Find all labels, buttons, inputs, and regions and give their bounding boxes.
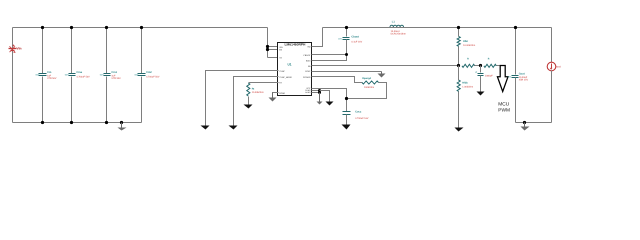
svg-text:100kOhm: 100kOhm — [364, 86, 374, 89]
svg-text:Iout: Iout — [556, 65, 561, 69]
capacitor Cin1 — [100, 28, 121, 123]
node FB divider junction — [457, 64, 460, 67]
svg-text:Cvcc: Cvcc — [355, 111, 362, 114]
svg-text:Cina: Cina — [76, 71, 82, 74]
svg-text:Vin: Vin — [17, 47, 22, 51]
resistor Rt — [247, 83, 279, 105]
wire input left vertical — [12, 28, 14, 123]
capacitor Cboot — [312, 28, 363, 61]
node junction dots on input rails — [41, 26, 44, 29]
svg-text:1uF: 1uF — [47, 74, 52, 77]
svg-text:Rt: Rt — [252, 88, 255, 91]
svg-text:25V: 25V — [507, 75, 511, 78]
inductor L1 — [390, 21, 406, 36]
svg-text:PGND: PGND — [279, 92, 285, 95]
svg-text:4.700uF 16V: 4.700uF 16V — [355, 117, 369, 120]
wire PGND AGND pins — [312, 90, 320, 92]
svg-text:Rfbb: Rfbb — [462, 82, 468, 85]
node SW rail to divider — [457, 26, 460, 29]
wire input bottom rail — [13, 122, 142, 124]
resistor Rpwrgd — [312, 77, 387, 99]
node VIN pins tie — [266, 45, 269, 48]
capacitor Cin2 — [135, 28, 160, 123]
svg-text:50V: 50V — [135, 74, 139, 77]
svg-text:DCR:25mOhm: DCR:25mOhm — [391, 33, 406, 36]
svg-text:50V: 50V — [65, 74, 69, 77]
svg-text:1000pF: 1000pF — [485, 75, 493, 78]
node R3 C junction — [479, 64, 482, 67]
svg-text:1.00kOhm: 1.00kOhm — [462, 86, 473, 89]
ground SYNC — [201, 126, 210, 130]
wire SW output rail — [323, 27, 552, 29]
svg-text:BIAS: BIAS — [306, 60, 311, 63]
ground AGND black — [320, 91, 334, 106]
svg-text:10.00uF: 10.00uF — [519, 76, 528, 79]
svg-text:4.700uF 50V: 4.700uF 50V — [76, 76, 90, 79]
svg-text:50V: 50V — [100, 74, 104, 77]
node output ground — [523, 121, 526, 124]
svg-text:PWM: PWM — [498, 107, 510, 113]
svg-text:Cin: Cin — [47, 71, 52, 74]
node VCC net — [345, 97, 348, 100]
svg-text:SYNC_MODE: SYNC_MODE — [279, 76, 292, 79]
current source Iout — [547, 28, 561, 123]
ground output — [521, 123, 530, 131]
capacitor Cin — [36, 28, 57, 123]
capacitor Cout — [507, 28, 528, 123]
ground SYNC_MODE — [229, 126, 238, 130]
voltage source Vin — [9, 45, 22, 53]
svg-text:0.1uF 16V: 0.1uF 16V — [351, 40, 362, 43]
svg-text:Cin1: Cin1 — [111, 71, 117, 74]
wire vin to IC — [267, 28, 269, 58]
node CBOOT pin junction — [345, 53, 348, 56]
wire input top rail — [13, 27, 268, 29]
wire SYNC pin to ground — [206, 71, 279, 126]
svg-text:X5R 25V: X5R 25V — [519, 78, 529, 81]
svg-text:CBOOT: CBOOT — [303, 54, 311, 57]
svg-text:Rpwrgd: Rpwrgd — [362, 77, 371, 80]
ground Rfbb — [455, 128, 464, 132]
svg-text:MCU: MCU — [498, 102, 509, 108]
svg-text:SW: SW — [307, 46, 310, 49]
svg-text:1uF: 1uF — [111, 74, 116, 77]
svg-text:SYNC: SYNC — [305, 70, 311, 73]
svg-text:PGOOD: PGOOD — [303, 76, 311, 79]
svg-text:Cin2: Cin2 — [146, 71, 152, 74]
svg-text:4.700uF 50V: 4.700uF 50V — [146, 76, 160, 79]
svg-text:SYNC: SYNC — [279, 70, 285, 73]
capacitor C feedforward — [476, 66, 494, 92]
svg-text:X7R 50V: X7R 50V — [111, 77, 121, 80]
op-amp U1 regulator IC box — [278, 42, 312, 95]
svg-text:Cboot: Cboot — [351, 36, 359, 39]
ground C — [477, 92, 485, 96]
wire output bottom — [516, 122, 552, 124]
ground IC left AGND pin — [269, 93, 279, 102]
svg-text:Rfbt: Rfbt — [463, 40, 468, 43]
svg-text:10.00kOhm: 10.00kOhm — [463, 44, 475, 47]
resistor R3 — [462, 58, 481, 68]
svg-text:10.00uH: 10.00uH — [391, 30, 400, 33]
resistor Rfbt — [457, 28, 475, 66]
capacitor Cbulk — [65, 28, 90, 123]
ground Rt — [244, 105, 253, 109]
wire SYNC_MODE pin to ground — [234, 77, 279, 126]
ground MODE pin — [312, 72, 386, 78]
ground PGND gray — [317, 93, 323, 105]
resistor Rfbb — [457, 66, 473, 128]
svg-text:16V: 16V — [338, 37, 342, 40]
node SW rail to Cout — [514, 26, 517, 29]
ground Cvcc — [342, 125, 351, 130]
svg-text:10.00kOhm: 10.00kOhm — [252, 91, 264, 94]
svg-text:VIN: VIN — [279, 46, 283, 49]
svg-text:50V: 50V — [36, 74, 40, 77]
svg-text:Cout: Cout — [519, 73, 525, 76]
ground input rail — [118, 123, 127, 131]
svg-text:AGND: AGND — [305, 91, 311, 94]
wire SW pin to switch node — [312, 28, 323, 47]
capacitor Cvcc — [312, 89, 369, 125]
svg-text:LM61460RPH: LM61460RPH — [285, 42, 307, 46]
node SW-Cboot — [345, 26, 348, 29]
svg-text:U1: U1 — [288, 63, 292, 67]
wire FB pin to divider — [312, 65, 459, 67]
resistor R4 — [484, 58, 500, 68]
svg-text:X7R 50V: X7R 50V — [47, 77, 57, 80]
MCU PWM input arrow — [497, 66, 510, 114]
